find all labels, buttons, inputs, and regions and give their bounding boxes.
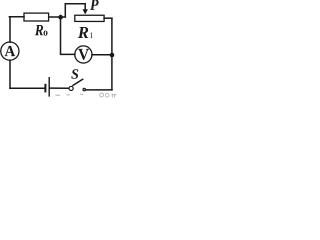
label R1 bbox=[78, 27, 89, 38]
label A in ammeter bbox=[5, 46, 16, 56]
wire left vertical lower bbox=[9, 60, 11, 88]
wire bottom left bbox=[10, 87, 44, 89]
wire slider arrow shaft bbox=[84, 4, 86, 10]
label S bbox=[71, 69, 78, 79]
switch contact circle bbox=[69, 86, 73, 90]
wire right vertical bbox=[111, 18, 113, 90]
resistor R0 bbox=[24, 13, 49, 21]
wire R0 right lead bbox=[49, 16, 66, 18]
watermark remnant bottom bbox=[56, 93, 117, 97]
label V in voltmeter bbox=[78, 49, 89, 60]
arrowhead of slider P bbox=[83, 9, 88, 14]
voltmeter V circle bbox=[75, 46, 92, 63]
wire voltmeter right branch bbox=[92, 54, 112, 56]
label R0 bbox=[35, 25, 43, 35]
junction node at voltmeter right bbox=[110, 53, 115, 58]
wire top-left horizontal bbox=[9, 16, 24, 18]
battery long plate bbox=[48, 77, 50, 97]
wire R1 right lead bbox=[104, 17, 112, 19]
battery short plate bbox=[44, 84, 46, 93]
wire battery to switch bbox=[50, 87, 69, 89]
label P bbox=[90, 0, 99, 10]
ammeter A circle bbox=[1, 42, 19, 60]
wire voltmeter left branch bbox=[61, 16, 75, 55]
wire bottom right bbox=[86, 89, 112, 91]
switch right contact bbox=[83, 88, 85, 90]
wire left vertical upper bbox=[9, 17, 11, 43]
switch lever bbox=[73, 79, 83, 85]
rheostat R1 bbox=[75, 15, 104, 21]
wire riser and slider top bbox=[65, 4, 85, 17]
junction node at R0/slider bbox=[58, 15, 63, 20]
